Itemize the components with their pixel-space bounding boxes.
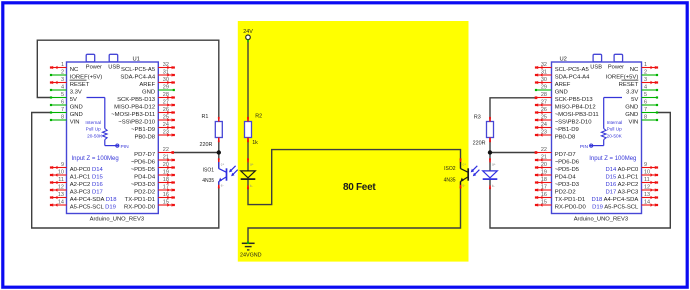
svg-text:a+: a+	[492, 163, 496, 167]
svg-text:32: 32	[541, 62, 547, 68]
svg-text:AREF: AREF	[555, 82, 571, 88]
svg-text:IOREF(+5V): IOREF(+5V)	[606, 74, 639, 80]
svg-text:PD4-D4: PD4-D4	[555, 174, 577, 180]
svg-text:20: 20	[163, 162, 169, 168]
svg-text:Pull Up: Pull Up	[607, 126, 623, 131]
svg-text:SCK-PB5-D13: SCK-PB5-D13	[555, 97, 594, 103]
svg-text:c+: c+	[463, 163, 467, 167]
svg-text:12: 12	[58, 185, 64, 191]
svg-text:RESET: RESET	[619, 82, 639, 88]
svg-text:220R: 220R	[200, 142, 213, 148]
svg-text:31: 31	[163, 70, 169, 76]
svg-text:SCL-PC5-A5: SCL-PC5-A5	[121, 67, 156, 73]
svg-text:14: 14	[644, 200, 650, 206]
svg-text:c+: c+	[221, 163, 225, 167]
svg-text:9: 9	[644, 162, 647, 168]
svg-text:A5-PC5-SCL D19: A5-PC5-SCL D19	[70, 204, 116, 210]
svg-text:ISO1: ISO1	[203, 167, 215, 173]
svg-text:Internal: Internal	[607, 120, 623, 125]
svg-text:2: 2	[644, 70, 647, 76]
svg-text:17: 17	[541, 185, 547, 191]
svg-text:U2: U2	[560, 56, 567, 62]
svg-text:PB0-D8: PB0-D8	[134, 134, 155, 140]
svg-text:20-50K: 20-50K	[87, 133, 103, 138]
svg-text:13: 13	[644, 192, 650, 198]
svg-text:1k: 1k	[252, 140, 258, 146]
svg-text:TX-PD1-D1: TX-PD1-D1	[555, 197, 585, 203]
svg-text:Power: Power	[608, 65, 624, 71]
svg-text:A3-PC3 D17: A3-PC3 D17	[70, 189, 103, 195]
svg-text:16: 16	[163, 192, 169, 198]
svg-text:4: 4	[61, 85, 64, 91]
svg-text:Power: Power	[86, 65, 102, 71]
svg-text:R3: R3	[474, 114, 481, 120]
svg-text:29: 29	[541, 85, 547, 91]
svg-text:24: 24	[163, 122, 169, 128]
svg-text:e-: e-	[221, 183, 224, 187]
svg-text:27: 27	[163, 100, 169, 106]
svg-text:D17 A3-PC3: D17 A3-PC3	[606, 189, 639, 195]
svg-text:29: 29	[163, 85, 169, 91]
svg-text:18: 18	[163, 177, 169, 183]
svg-text:~PB1-D9: ~PB1-D9	[131, 127, 155, 133]
svg-text:RESET: RESET	[70, 82, 90, 88]
svg-text:19: 19	[541, 170, 547, 176]
svg-text:Arduino_UNO_REV3: Arduino_UNO_REV3	[90, 217, 144, 223]
svg-text:Input Z = 100Meg: Input Z = 100Meg	[589, 156, 636, 162]
svg-text:27: 27	[541, 100, 547, 106]
svg-text:PD2-D2: PD2-D2	[555, 189, 576, 195]
svg-text:PB0-D8: PB0-D8	[555, 134, 576, 140]
svg-text:80 Feet: 80 Feet	[343, 182, 376, 193]
svg-text:D18 A4-PC4-SDA: D18 A4-PC4-SDA	[591, 197, 638, 203]
svg-text:7: 7	[644, 107, 647, 113]
svg-text:26: 26	[163, 107, 169, 113]
svg-text:PIN: PIN	[121, 144, 130, 150]
svg-text:5: 5	[644, 92, 647, 98]
svg-text:~PD6-D6: ~PD6-D6	[131, 159, 156, 165]
svg-text:8: 8	[644, 115, 647, 121]
svg-text:NC: NC	[630, 67, 639, 73]
svg-text:4N35: 4N35	[202, 178, 214, 184]
svg-text:3.3V: 3.3V	[626, 89, 638, 95]
svg-text:1: 1	[61, 62, 64, 68]
svg-text:~PD5-D5: ~PD5-D5	[555, 167, 580, 173]
svg-text:5: 5	[61, 92, 64, 98]
svg-text:D15 A1-PC1: D15 A1-PC1	[606, 174, 639, 180]
svg-text:USB: USB	[108, 65, 120, 71]
svg-text:IOREF(+5V): IOREF(+5V)	[70, 74, 103, 80]
svg-text:11: 11	[58, 177, 64, 183]
svg-text:220R: 220R	[473, 140, 486, 146]
svg-text:16: 16	[541, 192, 547, 198]
svg-text:21: 21	[163, 155, 169, 161]
svg-text:7: 7	[61, 107, 64, 113]
svg-text:~SS\PB2-D10: ~SS\PB2-D10	[118, 119, 156, 125]
svg-text:TX-PD1-D1: TX-PD1-D1	[125, 197, 155, 203]
svg-text:D14 A0-PC0: D14 A0-PC0	[606, 167, 639, 173]
svg-text:31: 31	[541, 70, 547, 76]
svg-text:PD4-D4: PD4-D4	[134, 174, 156, 180]
svg-text:R2: R2	[255, 113, 262, 119]
svg-text:28: 28	[163, 92, 169, 98]
svg-text:20-50K: 20-50K	[607, 133, 623, 138]
svg-text:VIN: VIN	[628, 119, 638, 125]
svg-text:30: 30	[163, 77, 169, 83]
svg-text:PD7-D7: PD7-D7	[134, 152, 155, 158]
svg-text:1: 1	[644, 62, 647, 68]
svg-text:A0-PC0 D14: A0-PC0 D14	[70, 167, 104, 173]
svg-text:Input Z = 100Meg: Input Z = 100Meg	[72, 156, 119, 162]
svg-text:23: 23	[541, 130, 547, 136]
svg-text:14: 14	[58, 200, 64, 206]
svg-text:22: 22	[541, 147, 547, 153]
svg-text:R1: R1	[201, 114, 208, 120]
svg-text:Internal: Internal	[85, 120, 101, 125]
svg-text:~PD6-D6: ~PD6-D6	[555, 159, 580, 165]
svg-text:26: 26	[541, 107, 547, 113]
svg-text:20: 20	[541, 162, 547, 168]
svg-text:a+: a+	[250, 163, 254, 167]
svg-text:MISO-PB4-D12: MISO-PB4-D12	[555, 104, 596, 110]
svg-text:19: 19	[163, 170, 169, 176]
svg-text:SDA-PC4-A4: SDA-PC4-A4	[555, 74, 590, 80]
svg-text:21: 21	[541, 155, 547, 161]
svg-text:GND: GND	[70, 112, 83, 118]
svg-text:NC: NC	[70, 67, 79, 73]
svg-text:MISO-PB4-D12: MISO-PB4-D12	[114, 104, 155, 110]
svg-text:GND: GND	[625, 112, 638, 118]
svg-text:11: 11	[644, 177, 650, 183]
svg-text:25: 25	[163, 115, 169, 121]
svg-text:SCL-PC5-A5: SCL-PC5-A5	[555, 67, 590, 73]
svg-text:A1-PC1 D15: A1-PC1 D15	[70, 174, 104, 180]
svg-text:5V: 5V	[631, 97, 638, 103]
svg-text:D19 A5-PC5-SCL: D19 A5-PC5-SCL	[592, 204, 639, 210]
svg-text:VIN: VIN	[70, 119, 80, 125]
svg-text:Pull Up: Pull Up	[86, 126, 102, 131]
svg-text:PIN: PIN	[580, 144, 589, 150]
svg-text:SDA-PC4-A4: SDA-PC4-A4	[120, 74, 155, 80]
svg-text:GND: GND	[142, 89, 155, 95]
svg-text:e-: e-	[463, 183, 466, 187]
svg-text:~PD5-D5: ~PD5-D5	[131, 167, 156, 173]
svg-text:2: 2	[61, 70, 64, 76]
svg-text:RX-PD0-D0: RX-PD0-D0	[555, 204, 587, 210]
svg-text:GND: GND	[555, 89, 568, 95]
svg-text:6: 6	[644, 100, 647, 106]
svg-text:USB: USB	[590, 65, 602, 71]
svg-text:PD2-D2: PD2-D2	[134, 189, 155, 195]
svg-text:12: 12	[644, 185, 650, 191]
svg-text:~SS\PB2-D10: ~SS\PB2-D10	[555, 119, 593, 125]
svg-text:15: 15	[163, 200, 169, 206]
svg-text:22: 22	[163, 147, 169, 153]
svg-text:k-: k-	[492, 184, 495, 188]
svg-text:3: 3	[644, 77, 647, 83]
svg-text:PD7-D7: PD7-D7	[555, 152, 576, 158]
svg-text:9: 9	[61, 162, 64, 168]
svg-text:SCK-PB5-D13: SCK-PB5-D13	[117, 97, 156, 103]
svg-text:GND: GND	[625, 104, 638, 110]
svg-text:24V: 24V	[243, 29, 253, 35]
svg-text:D16 A2-PC2: D16 A2-PC2	[606, 182, 639, 188]
svg-text:4N35: 4N35	[444, 177, 456, 183]
svg-text:RX-PD0-D0: RX-PD0-D0	[124, 204, 156, 210]
svg-text:24: 24	[541, 122, 547, 128]
svg-text:A4-PC4-SDA D18: A4-PC4-SDA D18	[70, 197, 118, 203]
svg-text:AREF: AREF	[139, 82, 155, 88]
svg-text:4: 4	[644, 85, 647, 91]
svg-text:8: 8	[61, 115, 64, 121]
svg-text:30: 30	[541, 77, 547, 83]
svg-text:3.3V: 3.3V	[70, 89, 82, 95]
svg-text:5V: 5V	[70, 97, 77, 103]
svg-text:GND: GND	[70, 104, 83, 110]
svg-text:~PB1-D9: ~PB1-D9	[555, 127, 579, 133]
svg-text:25: 25	[541, 115, 547, 121]
svg-text:32: 32	[163, 62, 169, 68]
svg-text:3: 3	[61, 77, 64, 83]
svg-text:ISO2: ISO2	[444, 166, 456, 172]
svg-text:23: 23	[163, 130, 169, 136]
svg-text:~PD3-D3: ~PD3-D3	[555, 182, 580, 188]
svg-text:10: 10	[58, 170, 64, 176]
svg-text:24VGND: 24VGND	[240, 252, 262, 258]
svg-text:k-: k-	[250, 184, 253, 188]
svg-text:18: 18	[541, 177, 547, 183]
svg-text:~MOSI-PB3-D11: ~MOSI-PB3-D11	[555, 112, 599, 118]
svg-text:13: 13	[58, 192, 64, 198]
svg-text:6: 6	[61, 100, 64, 106]
svg-text:U1: U1	[133, 56, 140, 62]
svg-text:10: 10	[644, 170, 650, 176]
svg-text:~MOSI-PB3-D11: ~MOSI-PB3-D11	[111, 112, 155, 118]
svg-text:~PD3-D3: ~PD3-D3	[131, 182, 156, 188]
svg-text:17: 17	[163, 185, 169, 191]
svg-text:15: 15	[541, 200, 547, 206]
svg-text:A2-PC2 D16: A2-PC2 D16	[70, 182, 104, 188]
svg-text:28: 28	[541, 92, 547, 98]
svg-text:Arduino_UNO_REV3: Arduino_UNO_REV3	[574, 217, 628, 223]
